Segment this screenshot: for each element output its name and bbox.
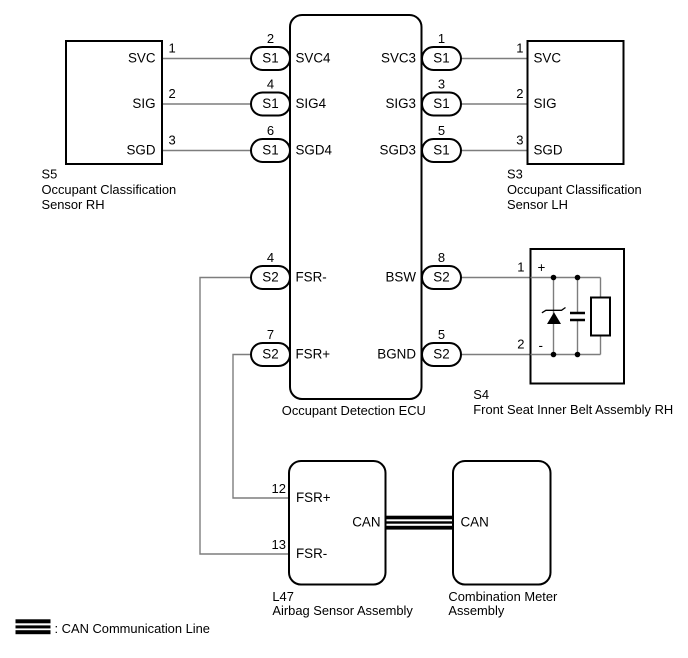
svg-text:1: 1 — [516, 41, 523, 56]
svg-text:CAN: CAN — [352, 515, 380, 530]
svg-text:FSR-: FSR- — [296, 546, 327, 561]
svg-text:Sensor LH: Sensor LH — [507, 197, 568, 212]
svg-text:2: 2 — [517, 337, 524, 352]
svg-text:S2: S2 — [433, 270, 449, 285]
svg-text:3: 3 — [438, 77, 445, 92]
svg-text:Front Seat Inner Belt Assembly: Front Seat Inner Belt Assembly RH — [473, 402, 673, 417]
svg-text:Sensor RH: Sensor RH — [42, 197, 105, 212]
svg-text:: CAN Communication Line: : CAN Communication Line — [55, 621, 210, 636]
svg-text:SIG: SIG — [534, 96, 557, 111]
svg-text:SIG4: SIG4 — [296, 96, 327, 111]
svg-text:S2: S2 — [262, 270, 278, 285]
svg-text:S1: S1 — [262, 51, 278, 66]
svg-text:Occupant Classification: Occupant Classification — [507, 182, 642, 197]
svg-text:SIG3: SIG3 — [385, 96, 416, 111]
svg-text:5: 5 — [438, 327, 445, 342]
svg-text:SGD3: SGD3 — [380, 143, 416, 158]
svg-text:S4: S4 — [473, 387, 489, 402]
svg-text:S1: S1 — [433, 51, 449, 66]
svg-text:12: 12 — [272, 481, 286, 496]
svg-text:1: 1 — [438, 31, 445, 46]
svg-text:SGD: SGD — [534, 143, 563, 158]
svg-text:4: 4 — [267, 250, 274, 265]
svg-text:S2: S2 — [433, 347, 449, 362]
svg-text:Assembly: Assembly — [448, 603, 504, 618]
svg-text:S1: S1 — [433, 143, 449, 158]
svg-text:BGND: BGND — [377, 347, 416, 362]
svg-text:FSR+: FSR+ — [296, 347, 331, 362]
svg-text:SVC4: SVC4 — [296, 51, 332, 66]
svg-text:1: 1 — [517, 260, 524, 275]
svg-text:4: 4 — [267, 77, 274, 92]
svg-text:FSR+: FSR+ — [296, 490, 331, 505]
svg-text:SGD4: SGD4 — [296, 143, 333, 158]
svg-text:L47: L47 — [272, 589, 294, 604]
svg-text:7: 7 — [267, 327, 274, 342]
svg-text:Occupant Classification: Occupant Classification — [42, 182, 177, 197]
svg-text:BSW: BSW — [385, 270, 416, 285]
svg-text:Occupant Detection ECU: Occupant Detection ECU — [282, 403, 426, 418]
svg-text:Airbag Sensor Assembly: Airbag Sensor Assembly — [272, 603, 413, 618]
svg-text:13: 13 — [272, 537, 286, 552]
svg-text:1: 1 — [169, 41, 176, 56]
svg-text:SVC3: SVC3 — [381, 51, 416, 66]
svg-text:3: 3 — [169, 133, 176, 148]
svg-text:CAN: CAN — [461, 515, 489, 530]
svg-text:-: - — [539, 338, 543, 353]
svg-text:2: 2 — [267, 31, 274, 46]
svg-text:+: + — [538, 260, 546, 275]
svg-text:5: 5 — [438, 123, 445, 138]
svg-text:SVC: SVC — [534, 51, 562, 66]
svg-text:3: 3 — [516, 133, 523, 148]
svg-text:8: 8 — [438, 250, 445, 265]
svg-text:Combination Meter: Combination Meter — [448, 589, 558, 604]
svg-text:2: 2 — [169, 86, 176, 101]
svg-text:S1: S1 — [433, 96, 449, 111]
svg-text:S1: S1 — [262, 96, 278, 111]
svg-text:6: 6 — [267, 123, 274, 138]
svg-text:S1: S1 — [262, 143, 278, 158]
svg-text:SGD: SGD — [126, 143, 155, 158]
svg-text:S3: S3 — [507, 167, 523, 182]
svg-text:FSR-: FSR- — [296, 270, 327, 285]
svg-text:2: 2 — [516, 86, 523, 101]
svg-text:SVC: SVC — [128, 51, 156, 66]
svg-text:SIG: SIG — [132, 96, 155, 111]
svg-text:S5: S5 — [42, 167, 58, 182]
svg-text:S2: S2 — [262, 347, 278, 362]
